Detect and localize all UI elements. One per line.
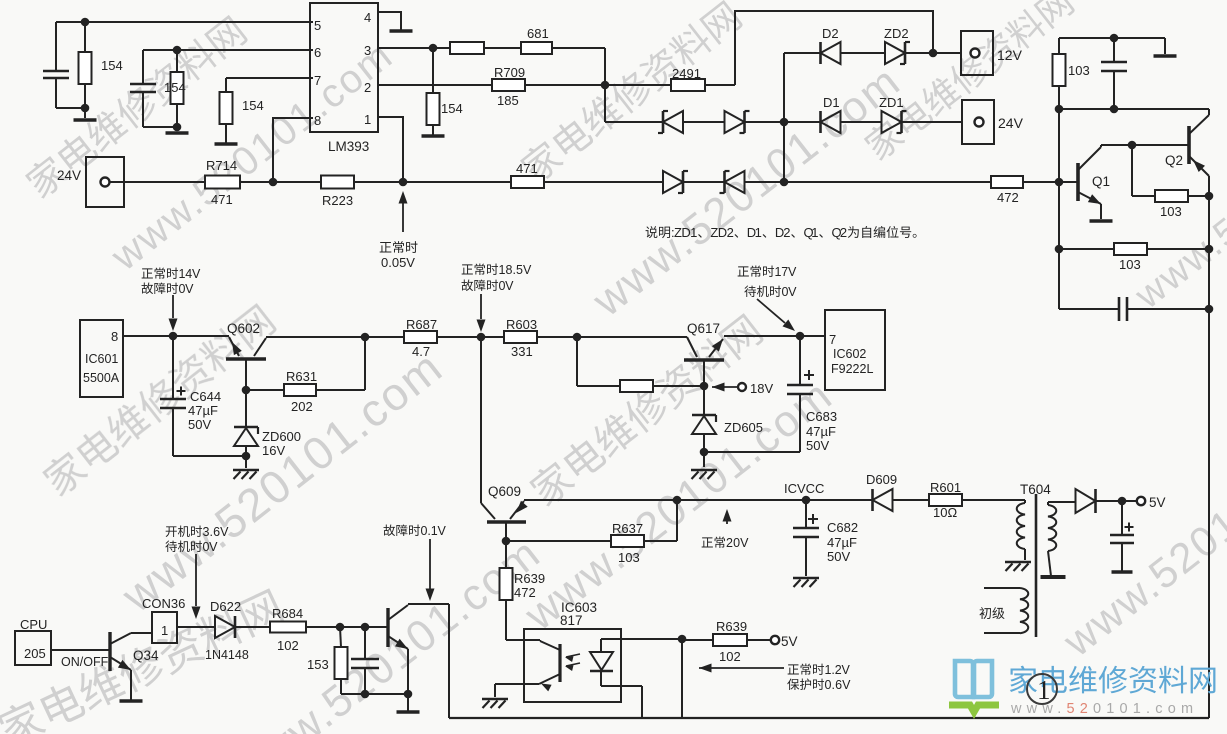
capacitor C682 [805, 500, 807, 528]
node emitter bottom [404, 690, 413, 699]
svg-text:ZD2: ZD2 [884, 26, 909, 41]
svg-text:103: 103 [618, 550, 640, 565]
resistor (Q617 base, unlabeled) [620, 380, 653, 392]
svg-text:Q602: Q602 [227, 321, 260, 336]
svg-text:Q609: Q609 [488, 484, 521, 499]
ground (pin3 divider) [422, 134, 445, 138]
node R637/rail [673, 496, 682, 505]
logo book icon [955, 661, 992, 697]
svg-text:50V: 50V [188, 417, 211, 432]
svg-text:20V: 20V [726, 536, 749, 550]
svg-text:Q2: Q2 [832, 225, 848, 240]
ground (C682) [793, 577, 819, 579]
node ZD2/feedback [929, 49, 938, 58]
opto phototransistor [558, 644, 561, 682]
node 14V [169, 332, 178, 341]
logo green base [949, 705, 999, 712]
wire R684 to transistor [306, 626, 388, 628]
node 18.5V [477, 333, 486, 342]
node pin6 top [173, 46, 182, 55]
transistor Q1 [1076, 163, 1080, 201]
svg-text:471: 471 [516, 161, 538, 176]
node 1114/109 [1110, 105, 1119, 114]
svg-text:472: 472 [514, 585, 536, 600]
resistor R714 [205, 176, 240, 189]
wire D622 to R684 [235, 626, 270, 628]
svg-text:7: 7 [314, 73, 321, 88]
svg-text:154: 154 [242, 98, 264, 113]
svg-text:47µF: 47µF [188, 403, 218, 418]
node diode rows vertical [780, 118, 789, 127]
ground (opto emitter) [494, 684, 496, 697]
wire ICVCC rail [524, 499, 872, 501]
diode D1 [821, 111, 841, 133]
svg-text:LM393: LM393 [328, 139, 369, 154]
zener ZD2 [885, 42, 905, 64]
node 1209/249 [1205, 245, 1214, 254]
svg-text:154: 154 [101, 58, 123, 73]
terminal 5V (opto) [771, 636, 779, 644]
node 1059/109 [1055, 105, 1064, 114]
svg-text:D609: D609 [866, 472, 897, 487]
svg-text:D1: D1 [747, 225, 762, 240]
wire pin3 row [378, 47, 450, 49]
svg-text:154: 154 [441, 101, 463, 116]
node pin6 bottom [173, 123, 182, 132]
svg-text:R639: R639 [716, 619, 747, 634]
svg-text:202: 202 [291, 399, 313, 414]
wire left vertical 1059 [1058, 109, 1060, 309]
node ZD605 bottom [700, 448, 709, 457]
resistor R684 [270, 622, 306, 633]
wire to 5V [1095, 500, 1118, 502]
node 153 top [336, 623, 345, 632]
node Q1 base [1055, 178, 1064, 187]
svg-text:R714: R714 [206, 158, 237, 173]
transistor Q602 [226, 357, 266, 361]
svg-text:1.2V: 1.2V [825, 663, 851, 677]
resistor R687 [404, 331, 437, 343]
wire top right [1059, 37, 1165, 39]
wire vertical 784 [783, 53, 785, 182]
resistor R631 [245, 359, 247, 390]
diode LED symbol [590, 652, 613, 670]
svg-text:IC601: IC601 [85, 352, 118, 366]
transistor Q2 [1187, 126, 1191, 164]
node Q617 base [700, 382, 709, 391]
svg-text:R709: R709 [494, 65, 525, 80]
svg-text:103: 103 [1160, 204, 1182, 219]
svg-text:10Ω: 10Ω [933, 505, 957, 520]
svg-text:ON/OFF: ON/OFF [61, 655, 109, 669]
connector 12V output [961, 31, 993, 75]
svg-text:8: 8 [314, 113, 321, 128]
resistor R637 [506, 540, 611, 542]
resistor 154 (pin5) [84, 22, 86, 52]
ground (pin4) [390, 29, 413, 33]
terminal 18V [712, 383, 725, 392]
resistor 103 (Q2 base) [1132, 195, 1155, 197]
node 1209/309 [1205, 305, 1214, 314]
annotation 0.1V (fault) [384, 525, 396, 537]
svg-text:Q617: Q617 [687, 321, 720, 336]
svg-text:50V: 50V [827, 549, 850, 564]
resistor R601 [929, 494, 962, 506]
svg-text:R684: R684 [272, 606, 303, 621]
connector CON36 [152, 612, 177, 643]
svg-text:ZD600: ZD600 [262, 429, 301, 444]
wire 18.5V down to Q609 [480, 337, 482, 503]
wire 24V rail [109, 181, 205, 183]
svg-text:16V: 16V [262, 443, 285, 458]
ground (5V filter) [1112, 570, 1133, 574]
svg-text:D622: D622 [210, 599, 241, 614]
svg-text:5V: 5V [781, 634, 798, 649]
wire between rail diodes [683, 181, 724, 183]
svg-text:47µF: 47µF [827, 535, 857, 550]
wire CON36 to D622 [177, 626, 215, 628]
wire row 109 [1059, 108, 1209, 110]
svg-text:817: 817 [560, 613, 583, 628]
zener ZD605 [703, 386, 705, 415]
node Q602 base [242, 386, 251, 395]
svg-text:R223: R223 [322, 193, 353, 208]
svg-text:103: 103 [1119, 257, 1141, 272]
node 17V [796, 332, 805, 341]
svg-text:0V: 0V [179, 282, 195, 296]
node R631 top [361, 333, 370, 342]
resistor 103 (row 249) [1114, 243, 1147, 255]
node pin5 top [81, 18, 90, 27]
resistor 681 [521, 42, 552, 54]
svg-text:0V: 0V [782, 285, 798, 299]
svg-text:R603: R603 [506, 317, 537, 332]
svg-text:R601: R601 [930, 480, 961, 495]
svg-text:102: 102 [719, 649, 741, 664]
node cap top [1110, 34, 1119, 43]
svg-text:D2: D2 [822, 26, 839, 41]
ground (protection emitter) [397, 710, 420, 714]
svg-text:F9222L: F9222L [831, 362, 873, 376]
svg-text:2491: 2491 [672, 66, 701, 81]
wire pin7 net [226, 77, 313, 79]
node diode row/472 [780, 178, 789, 187]
svg-text:4: 4 [364, 10, 371, 25]
svg-text:D2: D2 [775, 225, 791, 240]
node pin3 junction [429, 44, 438, 53]
svg-text:18.5V: 18.5V [499, 263, 533, 277]
diode D622 [215, 616, 235, 638]
transistor Q617 [684, 358, 724, 362]
zener ZD1 [882, 111, 902, 133]
transistor (protection, unlabeled) [386, 608, 389, 647]
resistor 2491 [671, 79, 705, 91]
resistor R639 102 [682, 639, 713, 641]
zener (upper pair left) [663, 111, 683, 133]
note text [646, 226, 658, 238]
svg-text:ZD2: ZD2 [710, 225, 733, 240]
annotation 1.2V [699, 664, 712, 673]
resistor 154 (pin6) [176, 50, 178, 72]
node 5V [1118, 497, 1127, 506]
svg-text:205: 205 [24, 646, 46, 661]
opto LED [600, 639, 602, 652]
node 1.2V [678, 635, 687, 644]
svg-text:153: 153 [307, 657, 329, 672]
capacitor (pin5 filter) [55, 22, 57, 71]
ground (ZD605) [691, 469, 717, 471]
diode (5V rectifier) [1076, 489, 1096, 513]
svg-text:24V: 24V [998, 115, 1024, 131]
svg-text:0V: 0V [499, 279, 515, 293]
resistor 153 [340, 627, 341, 647]
wire 12V row [784, 52, 820, 54]
node pin2/681 junction [601, 81, 610, 90]
svg-text:CPU: CPU [20, 617, 47, 632]
ground (ZD600) [233, 469, 259, 471]
resistor R709 [492, 79, 525, 91]
svg-text:331: 331 [511, 344, 533, 359]
capacitor C683 [799, 336, 801, 385]
node Q617 branch [573, 333, 582, 342]
svg-text:R687: R687 [406, 317, 437, 332]
node row145 [1128, 141, 1137, 150]
logo text [1010, 666, 1037, 694]
resistor R639 472 [505, 541, 507, 568]
svg-text:ICVCC: ICVCC [784, 481, 824, 496]
ground (secondary) [1041, 575, 1066, 579]
ground (Q34) [120, 699, 143, 703]
ground (pin7 net) [215, 142, 238, 146]
resistor R603 [504, 331, 537, 343]
transistor Q609 [487, 520, 526, 524]
capacitor (153 net) [364, 627, 366, 659]
svg-text:14V: 14V [179, 267, 202, 281]
resistor R223 [321, 176, 354, 189]
svg-text:5500A: 5500A [83, 371, 120, 385]
svg-text:ZD605: ZD605 [724, 420, 763, 435]
svg-text:103: 103 [1068, 63, 1090, 78]
op-amp LM393 [310, 3, 378, 132]
T604 feed winding [962, 499, 1025, 501]
node pin5 bottom [81, 104, 90, 113]
node ICVCC [802, 496, 811, 505]
resistor 471 [511, 176, 544, 188]
T604 secondary winding [1048, 501, 1076, 503]
wire row 145 [1101, 144, 1189, 146]
svg-text:5: 5 [314, 18, 321, 33]
IC IC602 [825, 310, 885, 390]
svg-text:471: 471 [211, 192, 233, 207]
wire Q617 base branch [576, 337, 578, 386]
capacitor (row 309) [1058, 249, 1060, 309]
wire collector down to bottom rail [448, 604, 450, 718]
svg-text:8: 8 [111, 329, 118, 344]
svg-text:C683: C683 [806, 409, 837, 424]
wire 472 to Q1 [1023, 181, 1078, 183]
node Q609 base [502, 537, 511, 546]
svg-text:102: 102 [277, 638, 299, 653]
wire R639 to opto collector [506, 639, 540, 641]
wire Q2 emitter / right border [1208, 176, 1210, 718]
wire row 249 [1059, 248, 1114, 250]
annotation 0.05V [399, 191, 408, 204]
ground (top right) [1154, 54, 1177, 58]
node pin8 junction [269, 178, 278, 187]
annotation 17V [738, 266, 749, 276]
zener (rail pair left) [663, 171, 683, 193]
IC IC603 817 [524, 629, 621, 702]
annotation 18.5V [462, 264, 473, 274]
annotation 14V [142, 268, 153, 278]
annotation 20V [723, 509, 732, 522]
diode D2 [821, 42, 841, 64]
diode D609 [873, 489, 893, 511]
svg-text:3: 3 [364, 43, 371, 58]
svg-text:6: 6 [314, 45, 321, 60]
svg-text:3.6V: 3.6V [203, 525, 230, 539]
svg-text:47µF: 47µF [806, 424, 836, 439]
wire pin8 [273, 118, 313, 182]
wire pin4 [378, 12, 401, 30]
svg-text:4.7: 4.7 [412, 344, 430, 359]
wire upper diode row [604, 85, 606, 122]
svg-text:12V: 12V [997, 47, 1023, 63]
wire pin6 net [143, 49, 313, 51]
svg-text:R639: R639 [514, 571, 545, 586]
svg-text:0.6V: 0.6V [825, 678, 852, 692]
svg-text:1: 1 [161, 623, 168, 638]
logo circled 1 [1027, 674, 1057, 704]
wire bottom rail [449, 717, 1209, 719]
node 103 right [1205, 192, 1214, 201]
zener (upper pair right) [725, 111, 745, 133]
svg-text:17V: 17V [775, 265, 798, 279]
zener ZD600 [245, 390, 247, 427]
wire Q602 collector rail [266, 336, 404, 338]
svg-text:Q34: Q34 [133, 648, 159, 663]
wire CPU to Q34 [51, 649, 110, 651]
svg-text:Q2: Q2 [1165, 153, 1183, 168]
transistor Q34 [108, 632, 111, 671]
node pin1 junction [399, 178, 408, 187]
svg-text::ZD1: :ZD1 [671, 225, 697, 240]
capacitor (pin6 filter) [142, 50, 144, 84]
svg-text:ZD1: ZD1 [879, 95, 904, 110]
wire Q617 to IC602 [724, 335, 825, 337]
IC IC601 [80, 320, 123, 397]
node cap top [361, 623, 370, 632]
wire pin1 [378, 117, 403, 182]
capacitor (5V filter) [1121, 501, 1123, 535]
svg-text:7: 7 [829, 332, 836, 347]
svg-text:18V: 18V [750, 381, 773, 396]
svg-text:185: 185 [497, 93, 519, 108]
connector 24V output [962, 100, 994, 144]
terminal 5V output [1137, 497, 1145, 505]
capacitor (top right) [1113, 38, 1115, 62]
svg-text:472: 472 [997, 190, 1019, 205]
ground (pin6 net) [166, 131, 189, 135]
ground (pin5 net) [74, 118, 97, 122]
svg-text:CON36: CON36 [142, 596, 185, 611]
svg-text:Q1: Q1 [1092, 174, 1110, 189]
resistor 472 [991, 176, 1023, 188]
resistor 154 (pin7) [225, 78, 227, 92]
resistor 154 (pin3 divider) [432, 48, 434, 93]
ground (feed winding) [1005, 561, 1031, 563]
wire node down to bottom rail [681, 639, 683, 718]
svg-text:1N4148: 1N4148 [205, 648, 249, 662]
wire pin2 row [378, 84, 492, 86]
annotation 3.6V [166, 526, 177, 537]
zener (rail pair right) [725, 171, 745, 193]
svg-text:0.05V: 0.05V [381, 255, 415, 270]
svg-text:D1: D1 [823, 95, 840, 110]
connector 24V input [86, 157, 124, 207]
wire ZD605 to C683 [704, 451, 800, 453]
wire to node [744, 181, 991, 183]
IC CPU [15, 631, 51, 665]
svg-text:IC602: IC602 [833, 347, 866, 361]
svg-text:C682: C682 [827, 520, 858, 535]
svg-text:1: 1 [364, 112, 371, 127]
svg-text:R631: R631 [286, 369, 317, 384]
svg-text:C644: C644 [190, 389, 221, 404]
wire LED anode out [601, 638, 682, 640]
wire bottom 153 net [341, 693, 408, 695]
svg-text:Q1: Q1 [804, 225, 819, 240]
svg-text:5V: 5V [1149, 495, 1166, 510]
capacitor C644 [172, 336, 174, 399]
node cap bottom [361, 690, 370, 699]
node 1059/249 [1055, 245, 1064, 254]
opto light arrows [566, 654, 580, 657]
resistor 103 (top right vertical) [1058, 38, 1060, 54]
svg-text:0.1V: 0.1V [421, 524, 447, 538]
svg-text:681: 681 [527, 26, 549, 41]
svg-text:24V: 24V [57, 168, 81, 183]
wire IC601 to Q602 [123, 335, 229, 337]
resistor (pin3 series, unlabeled) [450, 42, 484, 54]
svg-text:154: 154 [164, 80, 186, 95]
svg-text:50V: 50V [806, 438, 829, 453]
node ZD600 bottom [242, 452, 251, 461]
svg-text:www.520101.com: www.520101.com [1010, 701, 1198, 717]
wire pin5 net [56, 21, 313, 23]
ground (Q1 emitter) [1090, 219, 1113, 223]
svg-text:0V: 0V [203, 540, 219, 554]
svg-text:R637: R637 [612, 521, 643, 536]
svg-text:2: 2 [364, 80, 371, 95]
T604 primary winding [979, 607, 991, 619]
